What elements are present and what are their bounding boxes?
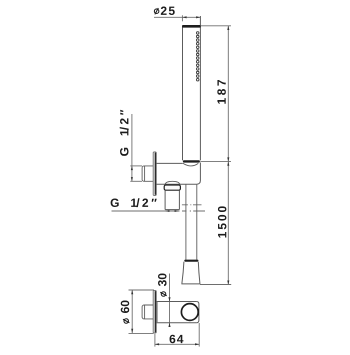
- holder inlet nipple G1/2: [142, 166, 153, 181]
- arrowheads G1/2 lower: [165, 210, 179, 212]
- hose cone fitting: [182, 262, 200, 284]
- dimension line Phi60 + extensions: [129, 290, 155, 333]
- holder cup arc under handle: [183, 163, 199, 166]
- extension line top for 187: [200, 25, 231, 27]
- outlet elbow nipple G1/2: [142, 305, 153, 319]
- label G 1/2 inch (horizontal): [111, 198, 157, 207]
- holder wall flange: [153, 152, 156, 196]
- outlet dome under holder: [165, 181, 180, 185]
- extension line cone bottom for 1500: [200, 284, 231, 286]
- arrowheads Phi30: [168, 297, 170, 327]
- dark wedge right of circle: [197, 309, 200, 316]
- flange-body shadow: [156, 302, 158, 323]
- dimension label Phi25: [154, 9, 159, 14]
- hand shower top cap (dark): [182, 25, 201, 28]
- arrowheads 64: [155, 343, 199, 345]
- arrowheads 187: [227, 26, 229, 285]
- hose nut top band: [164, 185, 180, 190]
- outlet circle (downward port): [181, 304, 198, 321]
- hose nut body: [165, 190, 179, 209]
- spray nozzle dots: [196, 32, 199, 81]
- dimension line Phi30: [169, 274, 171, 327]
- dimension label Phi60 (rotated): [121, 301, 130, 324]
- dimension line Phi25: [154, 15, 200, 21]
- arrowheads Phi25: [182, 16, 200, 18]
- outlet elbow wall flange: [153, 290, 156, 333]
- dimension 64: line + extensions: [155, 323, 199, 347]
- label G 1/2 inch (vertical): [120, 110, 129, 156]
- shared vertical dimension line 187 and 1500: [227, 26, 229, 285]
- outlet elbow body: [156, 302, 199, 323]
- arrowheads Phi60: [131, 290, 133, 333]
- hand shower bottom dark band: [183, 160, 200, 162]
- dimension label 1500 (rotated): [218, 206, 227, 237]
- shower hose: [186, 184, 197, 259]
- arrowheads G1/2 upper: [131, 166, 133, 181]
- dimension label Phi30 (rotated): [158, 274, 167, 297]
- extension line at handle bottom for 187/1500: [200, 161, 231, 163]
- dimension label 187 (rotated): [217, 80, 226, 104]
- dimension label 64: [170, 335, 184, 344]
- holder body: [156, 163, 200, 185]
- dimension G1/2 upper: line, extensions: [130, 114, 142, 181]
- hand shower handle sides: [183, 16, 201, 160]
- dimension G1/2 lower: line with dash-dot tail: [112, 205, 206, 211]
- hose cone fitting top band: [184, 260, 198, 262]
